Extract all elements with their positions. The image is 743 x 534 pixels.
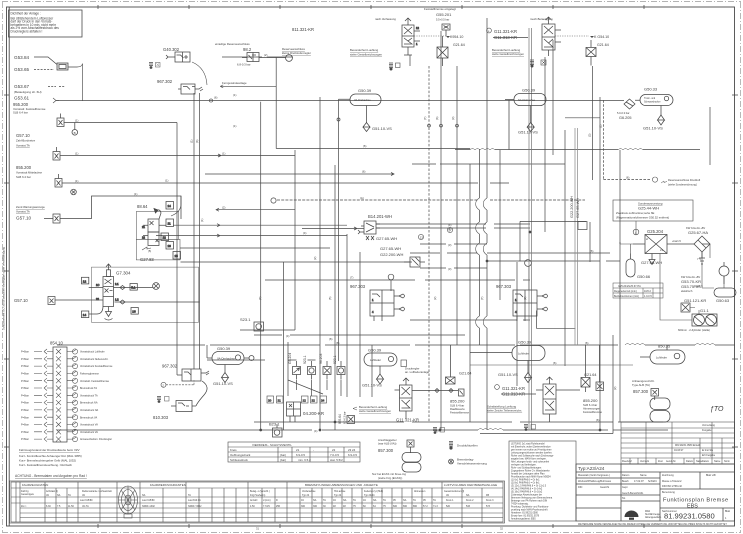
svg-text:Vermerk: Vermerk bbox=[640, 460, 650, 463]
svg-text:FB: FB bbox=[486, 494, 489, 497]
svg-text:96.203: 96.203 bbox=[319, 354, 323, 364]
svg-text:G27.66-WH: G27.66-WH bbox=[641, 260, 662, 265]
svg-text:Kreis 1: Kreis 1 bbox=[446, 499, 454, 502]
svg-text:Last 810.3A: Last 810.3A bbox=[188, 499, 201, 502]
svg-text:Rueckruf: Rueckruf bbox=[622, 460, 632, 463]
svg-text:Abmessungen: Abmessungen bbox=[583, 407, 601, 411]
svg-text:256: 256 bbox=[276, 505, 281, 508]
svg-text:NDNF-YR02: NDNF-YR02 bbox=[188, 505, 202, 508]
svg-text:VA-Drehachse: VA-Drehachse bbox=[217, 357, 235, 361]
svg-text:1.2: 1.2 bbox=[115, 298, 119, 302]
svg-text:Alle Leitungen knick- und sche: Alle Leitungen knick- und scheuerfrei bbox=[511, 461, 550, 464]
svg-text:Raabfeuerte: Raabfeuerte bbox=[450, 407, 465, 411]
svg-text:88.64: 88.64 bbox=[137, 204, 148, 209]
svg-text:Abmessun: Abmessun bbox=[414, 490, 426, 493]
svg-text:Dichtheit der Anlage :: Dichtheit der Anlage : bbox=[11, 12, 41, 16]
svg-text:Kreis 2: Kreis 2 bbox=[466, 499, 474, 502]
wire y165 segment bbox=[412, 163, 565, 165]
svg-text:48: 48 bbox=[333, 505, 336, 508]
svg-text:21: 21 bbox=[296, 448, 300, 452]
svg-text:NDNF-1302: NDNF-1302 bbox=[142, 505, 155, 508]
valve 811.321-KR (top left) bbox=[282, 17, 420, 57]
svg-text:Vorratst.TA: Vorratst.TA bbox=[16, 210, 30, 214]
svg-text:(6): (6) bbox=[585, 341, 588, 345]
svg-text:TA: TA bbox=[413, 499, 416, 502]
svg-text:NA: NA bbox=[57, 494, 61, 497]
svg-text:G51.121-KR: G51.121-KR bbox=[684, 298, 706, 303]
svg-text:D: D bbox=[276, 499, 278, 502]
svg-text:967.303: 967.303 bbox=[350, 284, 366, 289]
svg-text:(6): (6) bbox=[435, 117, 439, 120]
svg-text:7.5: 7.5 bbox=[57, 505, 61, 508]
wire y200.5 bbox=[277, 199, 585, 201]
svg-text:75: 75 bbox=[353, 505, 356, 508]
svg-text:Luftfeder: Luftfeder bbox=[518, 352, 529, 356]
svg-text:S23.1: S23.1 bbox=[240, 317, 251, 322]
svg-text:FAHRWERKSVARIANTEN: FAHRWERKSVARIANTEN bbox=[150, 483, 186, 487]
wire y117.8 bbox=[565, 117, 600, 119]
svg-text:G6.205: G6.205 bbox=[619, 116, 631, 120]
manifold row 3 bbox=[21, 364, 113, 369]
svg-text:B14.201-WH: B14.201-WH bbox=[368, 214, 392, 219]
svg-text:Achslast (t): Achslast (t) bbox=[46, 490, 58, 493]
svg-text:Reserveanschluss Druckluft: Reserveanschluss Druckluft bbox=[668, 178, 700, 182]
svg-text:NA: NA bbox=[313, 499, 317, 502]
air bellows G50.39 left bbox=[207, 346, 254, 386]
svg-text:B: B bbox=[74, 131, 76, 135]
svg-text:967.303: 967.303 bbox=[496, 284, 512, 289]
svg-text:1: 1 bbox=[372, 298, 374, 302]
svg-text:P=6bar: P=6bar bbox=[21, 373, 29, 376]
svg-text:NA: NA bbox=[466, 494, 470, 497]
svg-text:(6): (6) bbox=[626, 176, 629, 180]
connector squares row bbox=[267, 396, 327, 403]
right bottom valve G11.321-KR bbox=[487, 372, 580, 431]
svg-text:04: 04 bbox=[363, 499, 366, 502]
sensor G5.204 bbox=[288, 353, 301, 380]
bottom data table strip bbox=[10, 481, 505, 523]
vertical x260.7 bbox=[260, 102, 262, 430]
svg-text:Schutzvermerk ISO 16016 beacht: Schutzvermerk ISO 16016 beachten Weiterg… bbox=[2, 247, 6, 330]
svg-text:G27.83: G27.83 bbox=[140, 257, 154, 262]
svg-text:(5): (5) bbox=[148, 249, 151, 253]
svg-text:31: 31 bbox=[256, 527, 259, 531]
svg-text:05: 05 bbox=[423, 499, 426, 502]
note Bremskraft right bbox=[652, 177, 700, 187]
svg-text:VA-Drehachse: VA-Drehachse bbox=[354, 98, 371, 102]
svg-text:(2): (2) bbox=[313, 257, 317, 260]
notes text block LEITUNG bbox=[509, 441, 576, 521]
svg-text:(4): (4) bbox=[286, 334, 289, 338]
legend Bremsbelag-Verschleisssensierung bbox=[449, 458, 488, 466]
svg-text:21: 21 bbox=[142, 225, 145, 229]
svg-text:G25.44-WH: G25.44-WH bbox=[638, 206, 659, 211]
svg-text:Federsp.zyl.(Hub): Federsp.zyl.(Hub) bbox=[364, 490, 383, 493]
svg-text:P=6bar: P=6bar bbox=[21, 402, 29, 405]
svg-text:Luftfeder: Luftfeder bbox=[370, 358, 381, 362]
svg-text:Rohre und Schlaeuche nach Zeic: Rohre und Schlaeuche nach Zeichnungs- bbox=[511, 455, 554, 458]
svg-text:660: 660 bbox=[403, 505, 408, 508]
svg-text:nach.Verfassung: nach.Verfassung bbox=[375, 17, 396, 21]
svg-text:12: 12 bbox=[416, 26, 419, 30]
svg-text:05: 05 bbox=[393, 499, 396, 502]
svg-text:G25.204/G25.67-HA: G25.204/G25.67-HA bbox=[618, 285, 641, 288]
svg-text:siehe Zeichn.Teileverzeichn.: siehe Zeichn.Teileverzeichn. bbox=[487, 409, 522, 413]
svg-text:98.2: 98.2 bbox=[243, 47, 252, 52]
svg-text:d (mm): d (mm) bbox=[263, 499, 271, 502]
svg-text:(7): (7) bbox=[480, 297, 484, 300]
svg-text:P=6bar: P=6bar bbox=[21, 416, 29, 419]
svg-text:Regenerierzeit (min): Regenerierzeit (min) bbox=[614, 290, 637, 293]
svg-text:6.9-0.5: 6.9-0.5 bbox=[296, 453, 305, 457]
label G57.10 Zahl-Bordnetze bbox=[16, 133, 36, 148]
arrow Fernzylinderanlage bbox=[220, 81, 276, 88]
svg-text:DIN/ISO 2768-mK: DIN/ISO 2768-mK bbox=[662, 485, 682, 488]
svg-text:Gewicht: Gewicht bbox=[600, 486, 609, 489]
svg-text:P=6bar: P=6bar bbox=[21, 424, 29, 427]
svg-text:Betriebsvolumen (min): Betriebsvolumen (min) bbox=[614, 295, 639, 298]
svg-text:Vorratsdruck Feststellbremse: Vorratsdruck Feststellbremse bbox=[80, 365, 113, 368]
vertical x320 bbox=[319, 97, 321, 430]
svg-text:(1): (1) bbox=[75, 152, 78, 156]
svg-text:(4): (4) bbox=[303, 231, 306, 235]
svg-text:Fahrzeugzustand der Drucksollw: Fahrzeugzustand der Drucksollwerte beim … bbox=[19, 448, 80, 452]
svg-text:Vorratsdruck VA: Vorratsdruck VA bbox=[80, 431, 98, 434]
svg-text:Ersatz fuer: 81.99231.0579: Ersatz fuer: 81.99231.0579 bbox=[511, 515, 540, 518]
svg-text:850.35: 850.35 bbox=[658, 344, 671, 349]
vertical x500 bbox=[499, 150, 501, 300]
sensor 857.300 (center, war ALB VA) bbox=[378, 438, 421, 472]
vertical x457 bbox=[456, 66, 458, 345]
note box Sonderausruestung bbox=[613, 200, 693, 221]
air tank G50.33 (top right) bbox=[617, 87, 673, 131]
svg-text:SLB 6.4 bar: SLB 6.4 bar bbox=[13, 111, 28, 115]
wire x276 drop bbox=[276, 58, 470, 149]
svg-text:Anzahl der Leitungen siehe Pla: Anzahl der Leitungen siehe Plan bbox=[511, 473, 545, 476]
svg-text:74324 zulaessig.: 74324 zulaessig. bbox=[511, 504, 529, 506]
svg-text:(2) 8x1 PA6/PA6.6 = Gr 8x: (2) 8x1 PA6/PA6.6 = Gr 8x1 bbox=[511, 482, 540, 485]
svg-text:WEITERGABE SOWIE VERVIELFAELTI: WEITERGABE SOWIE VERVIELFAELTIGUNG DIESE… bbox=[578, 523, 727, 526]
svg-text:G51.10-VS: G51.10-VS bbox=[362, 383, 382, 388]
wire G53 to node bbox=[48, 64, 624, 104]
svg-text:VA: VA bbox=[446, 494, 449, 497]
svg-text:Gesamtgew: Gesamtgew bbox=[21, 493, 34, 496]
svg-text:(bar): (bar) bbox=[280, 458, 286, 462]
svg-text:kleine Drehstufenregler: kleine Drehstufenregler bbox=[282, 51, 311, 55]
svg-text:923.1: 923.1 bbox=[303, 355, 307, 364]
svg-text:24: 24 bbox=[321, 399, 325, 403]
vertical x545 bbox=[544, 57, 546, 232]
svg-text:G50.39: G50.39 bbox=[518, 340, 532, 345]
svg-text:NA-Drehachse: NA-Drehachse bbox=[518, 98, 536, 102]
svg-text:12: 12 bbox=[83, 280, 87, 284]
valve G27.65/G22.200 bbox=[380, 234, 425, 267]
svg-text:600: 600 bbox=[393, 505, 398, 508]
vertical x207 short bbox=[206, 345, 208, 358]
boxed note Besonderheit Lueftung bbox=[353, 405, 391, 413]
svg-text:(6): (6) bbox=[363, 144, 366, 148]
relay valve 811.321-KR bottom bbox=[395, 378, 459, 434]
switch 855.200 mid bbox=[450, 389, 469, 415]
svg-text:G50.33: G50.33 bbox=[644, 87, 658, 92]
svg-text:Masse o.Toleranz: Masse o.Toleranz bbox=[662, 480, 682, 483]
svg-text:(6): (6) bbox=[336, 341, 339, 345]
svg-text:14: 14 bbox=[168, 204, 172, 208]
svg-text:Zul. t: Zul. t bbox=[21, 505, 27, 508]
table header texts bbox=[22, 483, 497, 487]
node circle 5 bbox=[388, 274, 394, 280]
wire x603 corner bbox=[603, 100, 651, 179]
svg-text:2.1: 2.1 bbox=[115, 282, 119, 286]
svg-text:G5.204: G5.204 bbox=[288, 353, 292, 364]
svg-text:Schliessdruck: Schliessdruck bbox=[230, 458, 248, 462]
svg-text:Rohr- und Schlauchleitungen:: Rohr- und Schlauchleitungen: bbox=[511, 467, 542, 470]
svg-text:G11.321-KR: G11.321-KR bbox=[494, 29, 517, 34]
svg-text:1C: 1C bbox=[96, 283, 99, 287]
svg-text:(6): (6) bbox=[590, 249, 593, 253]
air dryer G25.204 bbox=[620, 229, 667, 265]
svg-text:gen immer nur rechts und 4-sei: gen immer nur rechts und 4-seitig einer bbox=[511, 449, 552, 452]
svg-text:Feststellbremse: Feststellbremse bbox=[583, 410, 602, 414]
pneumatic fittings pair top bbox=[389, 60, 546, 70]
table FAHRZEUGDATEN columns bbox=[15, 482, 17, 522]
svg-text:12: 12 bbox=[163, 236, 167, 240]
svg-text:32: 32 bbox=[500, 527, 503, 531]
hose coil 1 bbox=[470, 149, 495, 150]
title block bbox=[576, 464, 735, 521]
switch G57.10 y300 bbox=[55, 299, 103, 301]
svg-text:20: 20 bbox=[268, 399, 272, 403]
labels G53.70-KR bbox=[681, 275, 701, 293]
vertical x338.5 bbox=[338, 99, 340, 361]
svg-text:Er.Inst.Stu: Er.Inst.Stu bbox=[702, 449, 714, 452]
svg-text:G50.63: G50.63 bbox=[716, 298, 730, 303]
vertical x620 bbox=[619, 150, 621, 422]
svg-text:Name: Name bbox=[714, 460, 721, 463]
node circle 7 bbox=[525, 260, 532, 267]
wire y224 B14 right bbox=[376, 223, 530, 225]
svg-text:G27.65-WH: G27.65-WH bbox=[576, 198, 580, 218]
svg-text:5.1: 5.1 bbox=[131, 286, 136, 290]
svg-text:Werkstoff/Halbzeug/Rohmass: Werkstoff/Halbzeug/Rohmass bbox=[578, 480, 612, 483]
wire y365 run bbox=[470, 364, 633, 366]
vertical x177 bbox=[176, 123, 178, 376]
svg-text:(5) 16x2 PA6/PA6.6 = Gr 16x: (5) 16x2 PA6/PA6.6 = Gr 16x2 bbox=[511, 491, 543, 494]
svg-text:6.0-0.3 bar: 6.0-0.3 bar bbox=[343, 411, 347, 424]
svg-text:04: 04 bbox=[333, 499, 336, 502]
svg-text:(1): (1) bbox=[165, 179, 168, 183]
svg-text:DIN: DIN bbox=[578, 486, 583, 489]
svg-text:16: 16 bbox=[168, 244, 172, 248]
wire y244 bbox=[420, 243, 487, 245]
svg-text:Gesamtvolumen (l): Gesamtvolumen (l) bbox=[444, 490, 464, 493]
air bellows G50.39 bottom center bbox=[362, 348, 430, 388]
dryer section wires bbox=[620, 221, 724, 320]
svg-text:G25.67-HA: G25.67-HA bbox=[688, 230, 708, 235]
svg-text:Bremsdruck NA: Bremsdruck NA bbox=[80, 402, 98, 405]
label G53.84 bbox=[14, 55, 42, 101]
svg-text:2r: 2r bbox=[646, 237, 648, 241]
air bellows G50.35 far right bbox=[640, 344, 685, 365]
manifold row 12 bbox=[21, 429, 98, 434]
svg-text:G53.67: G53.67 bbox=[14, 84, 30, 89]
svg-text:G11.321-KR: G11.321-KR bbox=[502, 386, 525, 391]
svg-text:Fzg.Hoehe(m): Fzg.Hoehe(m) bbox=[250, 494, 265, 497]
svg-text:(7): (7) bbox=[350, 276, 353, 280]
svg-text:Vorratst.TA: Vorratst.TA bbox=[16, 144, 30, 148]
wheel drawing in table bbox=[119, 486, 138, 518]
svg-text:Druckreglers abfallen !: Druckreglers abfallen ! bbox=[11, 29, 43, 33]
control valve B14.201-WH bbox=[358, 214, 453, 241]
svg-text:300: 300 bbox=[301, 505, 306, 508]
svg-text:81.99231.0580: 81.99231.0580 bbox=[664, 512, 715, 521]
svg-text:Zust: Zust bbox=[658, 460, 663, 463]
svg-text:23 24: 23 24 bbox=[348, 448, 356, 452]
svg-text:Blatt v.Bl: Blatt v.Bl bbox=[706, 474, 716, 477]
svg-text:Belag- o.(Verschl.): Belag- o.(Verschl.) bbox=[250, 490, 270, 493]
svg-text:Vorratsdruck VA: Vorratsdruck VA bbox=[80, 424, 98, 427]
svg-text:5.0-0.3 bar: 5.0-0.3 bar bbox=[617, 111, 630, 115]
svg-text:G21.64: G21.64 bbox=[453, 43, 465, 47]
manifold row 1 bbox=[21, 349, 105, 354]
svg-text:ƒTO: ƒTO bbox=[710, 406, 724, 413]
relay valve 88.64 bbox=[136, 196, 295, 262]
svg-text:(4): (4) bbox=[314, 429, 317, 433]
text block Fahrzeugzustand bbox=[19, 448, 82, 467]
vertical x479 with hose breaks bbox=[478, 149, 480, 345]
svg-text:981.99231.0580 Erstellt: 981.99231.0580 Erstellt bbox=[675, 444, 701, 447]
svg-text:(2): (2) bbox=[599, 125, 603, 128]
svg-text:(Betaetigung sh. 6H): (Betaetigung sh. 6H) bbox=[14, 90, 42, 94]
svg-text:mit Einzelrohr, wobei Zweierve: mit Einzelrohr, wobei Zweierverbindun- bbox=[511, 446, 551, 449]
valve 967.302 top bbox=[157, 79, 203, 94]
vertical pair x194/x199 bbox=[194, 93, 200, 369]
svg-text:Massstab (Verkl./Vergroess.): Massstab (Verkl./Vergroess.) bbox=[578, 474, 610, 477]
svg-text:P=6bar: P=6bar bbox=[21, 394, 29, 397]
svg-text:(siehe Fzg.(ECAS)): (siehe Fzg.(ECAS)) bbox=[378, 476, 402, 480]
svg-text:G51.10-VS: G51.10-VS bbox=[372, 126, 392, 131]
svg-text:P=6bar: P=6bar bbox=[21, 365, 29, 368]
svg-text:Drucklufttuellen: Drucklufttuellen bbox=[457, 444, 478, 448]
svg-text:Type ALB (TA): Type ALB (TA) bbox=[632, 383, 650, 387]
svg-text:Kurz- Feststellbremsleuchteng.: Kurz- Feststellbremsleuchteng.: Rot/Gelb bbox=[19, 463, 72, 467]
svg-text:P=6bar: P=6bar bbox=[21, 438, 29, 441]
svg-text:(1): (1) bbox=[134, 192, 137, 196]
svg-text:Pruefung: Dichtheits- und Funk: Pruefung: Dichtheits- und Funktions- bbox=[511, 506, 549, 509]
component 967.302 lower bbox=[157, 364, 209, 403]
svg-text:7.0-0.5: 7.0-0.5 bbox=[330, 453, 339, 457]
svg-text:G22.200-WH: G22.200-WH bbox=[570, 196, 574, 218]
svg-text:Kreis 3: Kreis 3 bbox=[486, 499, 494, 502]
wire sensor feed bbox=[288, 342, 341, 396]
svg-text:Anwesenheitsm. Druckregler: Anwesenheitsm. Druckregler bbox=[80, 438, 112, 441]
svg-text:11.50: 11.50 bbox=[68, 505, 74, 508]
label 955.200 Vorratsdruck Feststellbremse bbox=[13, 102, 46, 115]
wire main y345 long bbox=[57, 344, 618, 346]
svg-text:NA: NA bbox=[373, 499, 377, 502]
svg-text:P=6bar: P=6bar bbox=[21, 431, 29, 434]
svg-text:VIERKREIS - SCHUTZVENTIL: VIERKREIS - SCHUTZVENTIL bbox=[252, 443, 292, 447]
svg-text:(1): (1) bbox=[75, 179, 78, 183]
svg-text:pruefung nach MAN-Pruefvorschr: pruefung nach MAN-Pruefvorschrift bbox=[511, 509, 548, 512]
svg-text:48: 48 bbox=[343, 505, 346, 508]
svg-text:G51.10-VS: G51.10-VS bbox=[498, 372, 518, 377]
svg-text:P=6bar: P=6bar bbox=[21, 387, 29, 390]
svg-text:Vorderachse: Vorderachse bbox=[302, 490, 316, 493]
svg-text:stat. 5.5/2: stat. 5.5/2 bbox=[330, 458, 343, 462]
svg-text:64: 64 bbox=[373, 505, 376, 508]
svg-text:(Regenerationsluftmesser G50.5: (Regenerationsluftmesser G50.52 entfernt… bbox=[616, 216, 669, 220]
svg-text:Zahl-Bordnetze: Zahl-Bordnetze bbox=[16, 139, 36, 143]
svg-text:(1): (1) bbox=[190, 140, 194, 143]
svg-text:Vorratsdruck Nebenverbr.: Vorratsdruck Nebenverbr. bbox=[80, 358, 109, 361]
svg-text:(6): (6) bbox=[362, 170, 365, 174]
svg-text:4: 4 bbox=[372, 310, 374, 314]
svg-text:G11.321-KR: G11.321-KR bbox=[396, 418, 419, 423]
curve G40 to 967 bbox=[192, 62, 207, 85]
svg-text:G50.39: G50.39 bbox=[522, 88, 536, 93]
svg-text:Betraege von PA-Rohren nach DI: Betraege von PA-Rohren nach DIN bbox=[511, 500, 548, 503]
vertical x360 bbox=[359, 252, 361, 397]
wire y345 right hose bbox=[625, 344, 645, 345]
svg-text:NA: NA bbox=[142, 494, 146, 497]
svg-text:B23.1: B23.1 bbox=[269, 422, 280, 427]
svg-text:-: - bbox=[313, 448, 314, 452]
svg-text:Freigabe: Freigabe bbox=[702, 429, 712, 432]
manifold row 10 bbox=[21, 415, 98, 420]
svg-text:30: 30 bbox=[323, 505, 326, 508]
svg-text:LEITUNG 2x1 statt Rohrbuendel: LEITUNG 2x1 statt Rohrbuendel bbox=[511, 443, 545, 446]
svg-text:siehe Gestellzeichnungen: siehe Gestellzeichnungen bbox=[350, 53, 382, 57]
svg-text:855.200: 855.200 bbox=[583, 398, 598, 403]
svg-text:G27.65-WH: G27.65-WH bbox=[380, 246, 401, 251]
revision table bbox=[621, 422, 735, 464]
svg-text:(4) 14x2 PA6/PA6.6 = Gr 14x: (4) 14x2 PA6/PA6.6 = Gr 14x2 bbox=[511, 488, 543, 491]
wire y268 bbox=[420, 267, 487, 269]
svg-text:Typ 24: Typ 24 bbox=[334, 494, 342, 497]
svg-text:10/0.2: 10/0.2 bbox=[644, 290, 652, 293]
svg-text:6.8-0.3 bar: 6.8-0.3 bar bbox=[237, 63, 251, 67]
svg-text:75: 75 bbox=[383, 505, 386, 508]
svg-text:810.303: 810.303 bbox=[153, 415, 169, 420]
svg-text:min. 6.5.2: min. 6.5.2 bbox=[298, 458, 311, 462]
vertical x410 stub bbox=[409, 55, 411, 66]
vertical x429 bbox=[428, 66, 430, 422]
svg-text:04.03.97: 04.03.97 bbox=[674, 449, 684, 452]
pressure switch B23.1 bottom bbox=[269, 422, 282, 438]
svg-text:TA: TA bbox=[383, 499, 386, 502]
svg-text:G50.39: G50.39 bbox=[368, 348, 382, 353]
note box Dichtheit der Anlage bbox=[9, 10, 83, 37]
svg-text:einteilige Reserveanschluss: einteilige Reserveanschluss bbox=[215, 42, 250, 46]
manifold row 6 bbox=[21, 385, 97, 390]
wire y150 with hose break bbox=[455, 149, 700, 151]
svg-text:Fahrzeugbremse: Fahrzeugbremse bbox=[80, 373, 100, 376]
svg-text:Erl.Freigabe: Erl.Freigabe bbox=[702, 454, 716, 457]
svg-text:elektrisch: elektrisch bbox=[681, 289, 693, 293]
svg-text:NA: NA bbox=[403, 499, 407, 502]
check valve G6.205 bbox=[624, 99, 635, 109]
svg-text:Leitung angeschlossen werden d: Leitung angeschlossen werden duerfen. bbox=[511, 452, 553, 455]
svg-text:855.200: 855.200 bbox=[16, 165, 32, 170]
svg-text:22: 22 bbox=[142, 236, 145, 240]
manifold row 4 bbox=[21, 371, 100, 376]
svg-text:Aktiengesellsch.: Aktiengesellsch. bbox=[645, 516, 662, 519]
svg-text:(6): (6) bbox=[596, 418, 599, 422]
svg-text:Luftfeder: Luftfeder bbox=[656, 356, 667, 360]
svg-text:(1): (1) bbox=[222, 152, 225, 156]
vertical x295 bbox=[294, 150, 296, 330]
